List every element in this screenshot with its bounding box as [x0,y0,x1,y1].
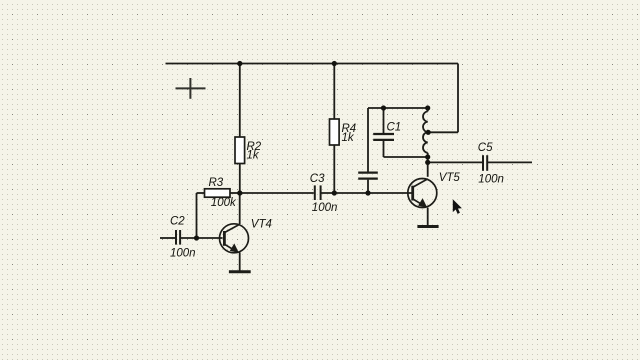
svg-text:1k: 1k [342,132,355,144]
wire C1 top stub [383,108,385,133]
wire R2 bottom (R2 to node) [239,164,241,194]
resistor R3 [205,177,237,209]
node rail-R2 [237,61,242,66]
node tank top C1 [381,105,386,110]
svg-text:100n: 100n [170,248,196,260]
wire R4 top (rail to R4) [333,64,335,120]
node rail-R4 [332,61,337,66]
transistor VT4 [220,218,272,253]
wire node to C3 left plate [240,192,314,194]
svg-text:100k: 100k [211,197,237,209]
wire tank left vertical to feedback cap [367,108,369,172]
wire C3 right plate to VT5 base [321,192,412,194]
wire C2 to VT4 base [181,237,223,239]
node feedback cap bottom [365,190,370,195]
svg-text:R3: R3 [209,177,224,189]
svg-text:VT4: VT4 [251,218,272,230]
wire C1 bottom stub [383,141,385,158]
wire R3 feedback vertical [196,193,198,238]
capacitor C3 [310,173,338,214]
svg-text:C5: C5 [478,142,493,154]
node collector C5 [425,160,430,165]
junction dots [194,61,431,241]
wire R3 left stub [197,192,205,194]
wire R3 right stub [230,192,240,194]
capacitor C5 [478,142,504,186]
wire feedback cap bottom stub [367,180,369,193]
wire coil bottom to VT5 collector [427,153,429,177]
wire coil tap horizontal [428,131,458,133]
wire R2 top (rail to R2) [239,64,241,138]
node coil top [425,105,430,110]
inductor L coil [423,108,428,153]
wire VT5 emitter to ground [427,208,429,226]
svg-text:100n: 100n [478,173,504,185]
wire right vertical from rail to coil tap [457,64,459,133]
wire VT4 collector vertical [239,193,241,224]
resistor R2 [235,137,262,164]
wire tank top horizontal [368,107,428,109]
node coil bottom C1 [425,154,430,159]
wire VT4 emitter to ground [239,252,241,270]
mouse cursor [453,199,462,214]
capacitor feedback (unlabeled) [358,173,378,179]
svg-text:1k: 1k [247,150,260,162]
svg-text:C2: C2 [170,216,185,228]
ground VT4 [229,270,251,273]
capacitor C2 [170,216,196,260]
wire C5 right output [488,161,532,163]
resistor R4 [330,119,357,145]
wire R4 bottom (R4 to node) [333,145,335,193]
node R3-C2 base [194,235,199,240]
svg-text:VT5: VT5 [439,172,461,184]
ground VT5 [417,225,438,228]
plus symbol of supply [176,78,206,99]
wire C2 input left [160,237,175,239]
capacitor C1 [373,121,401,140]
wire top supply rail [166,63,459,65]
svg-text:100n: 100n [312,202,338,214]
svg-text:C1: C1 [387,121,402,133]
transistor VT5 [408,172,461,208]
node R4 bottom [332,190,337,195]
svg-text:C3: C3 [310,173,325,185]
node coil tap [426,130,431,135]
wire collector node to C5 [428,161,483,163]
node R3/R2/collector [237,190,242,195]
wire C1 bottom to coil bottom [384,156,428,158]
